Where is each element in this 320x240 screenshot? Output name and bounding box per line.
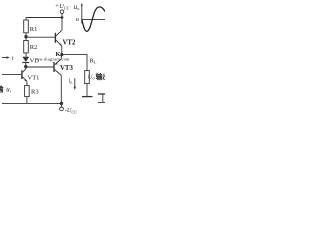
terminal +Ucc — [60, 10, 64, 14]
svg-text:i: i — [12, 55, 14, 62]
svg-text:R2: R2 — [30, 44, 38, 51]
transistor VT2 — [55, 33, 56, 43]
svg-text:-UCC: -UCC — [65, 107, 77, 115]
junction node A — [24, 35, 27, 38]
junction top rail — [61, 16, 64, 19]
svg-text:o: o — [76, 16, 80, 23]
diode VD — [22, 57, 29, 62]
svg-text:iL: iL — [69, 78, 74, 85]
svg-text:ww.diagram.com: ww.diagram.com — [36, 57, 70, 62]
wire top rail — [26, 17, 62, 19]
svg-text:ui: ui — [6, 86, 11, 93]
junction -Ucc — [60, 102, 63, 105]
svg-text:VT1: VT1 — [28, 75, 40, 82]
wire node K to RL — [62, 55, 87, 71]
wire base VT2 — [26, 36, 55, 38]
svg-text:+UCC: +UCC — [55, 3, 70, 11]
waveform sine — [82, 7, 105, 31]
waveform axes — [81, 4, 83, 23]
svg-text:Uo: Uo — [88, 73, 95, 80]
junction node K — [60, 53, 63, 56]
current arrow iL — [74, 78, 76, 88]
transistor VT3 — [53, 62, 54, 72]
wire bottom rail — [2, 102, 62, 104]
resistor R1 — [25, 18, 27, 21]
terminal -Ucc — [60, 107, 64, 111]
wire terminal to rail — [61, 14, 63, 18]
resistor RL — [85, 71, 90, 84]
ground right — [98, 93, 105, 95]
input current arrow — [2, 57, 8, 59]
svg-text:R1: R1 — [30, 26, 38, 33]
wire base VT3 — [26, 66, 54, 68]
svg-text:RL: RL — [90, 57, 97, 64]
transistor VT1 — [21, 70, 22, 79]
ground under RL — [82, 96, 93, 98]
svg-text:uo: uo — [74, 3, 81, 11]
svg-text:VT2: VT2 — [63, 39, 76, 46]
svg-text:R3: R3 — [31, 88, 39, 95]
junction node B — [24, 65, 27, 68]
svg-text:VT3: VT3 — [60, 65, 73, 72]
svg-text:输: 输 — [0, 84, 5, 93]
svg-text:输出: 输出 — [96, 72, 105, 81]
resistor R3 — [25, 86, 30, 97]
resistor R2 — [25, 37, 27, 41]
